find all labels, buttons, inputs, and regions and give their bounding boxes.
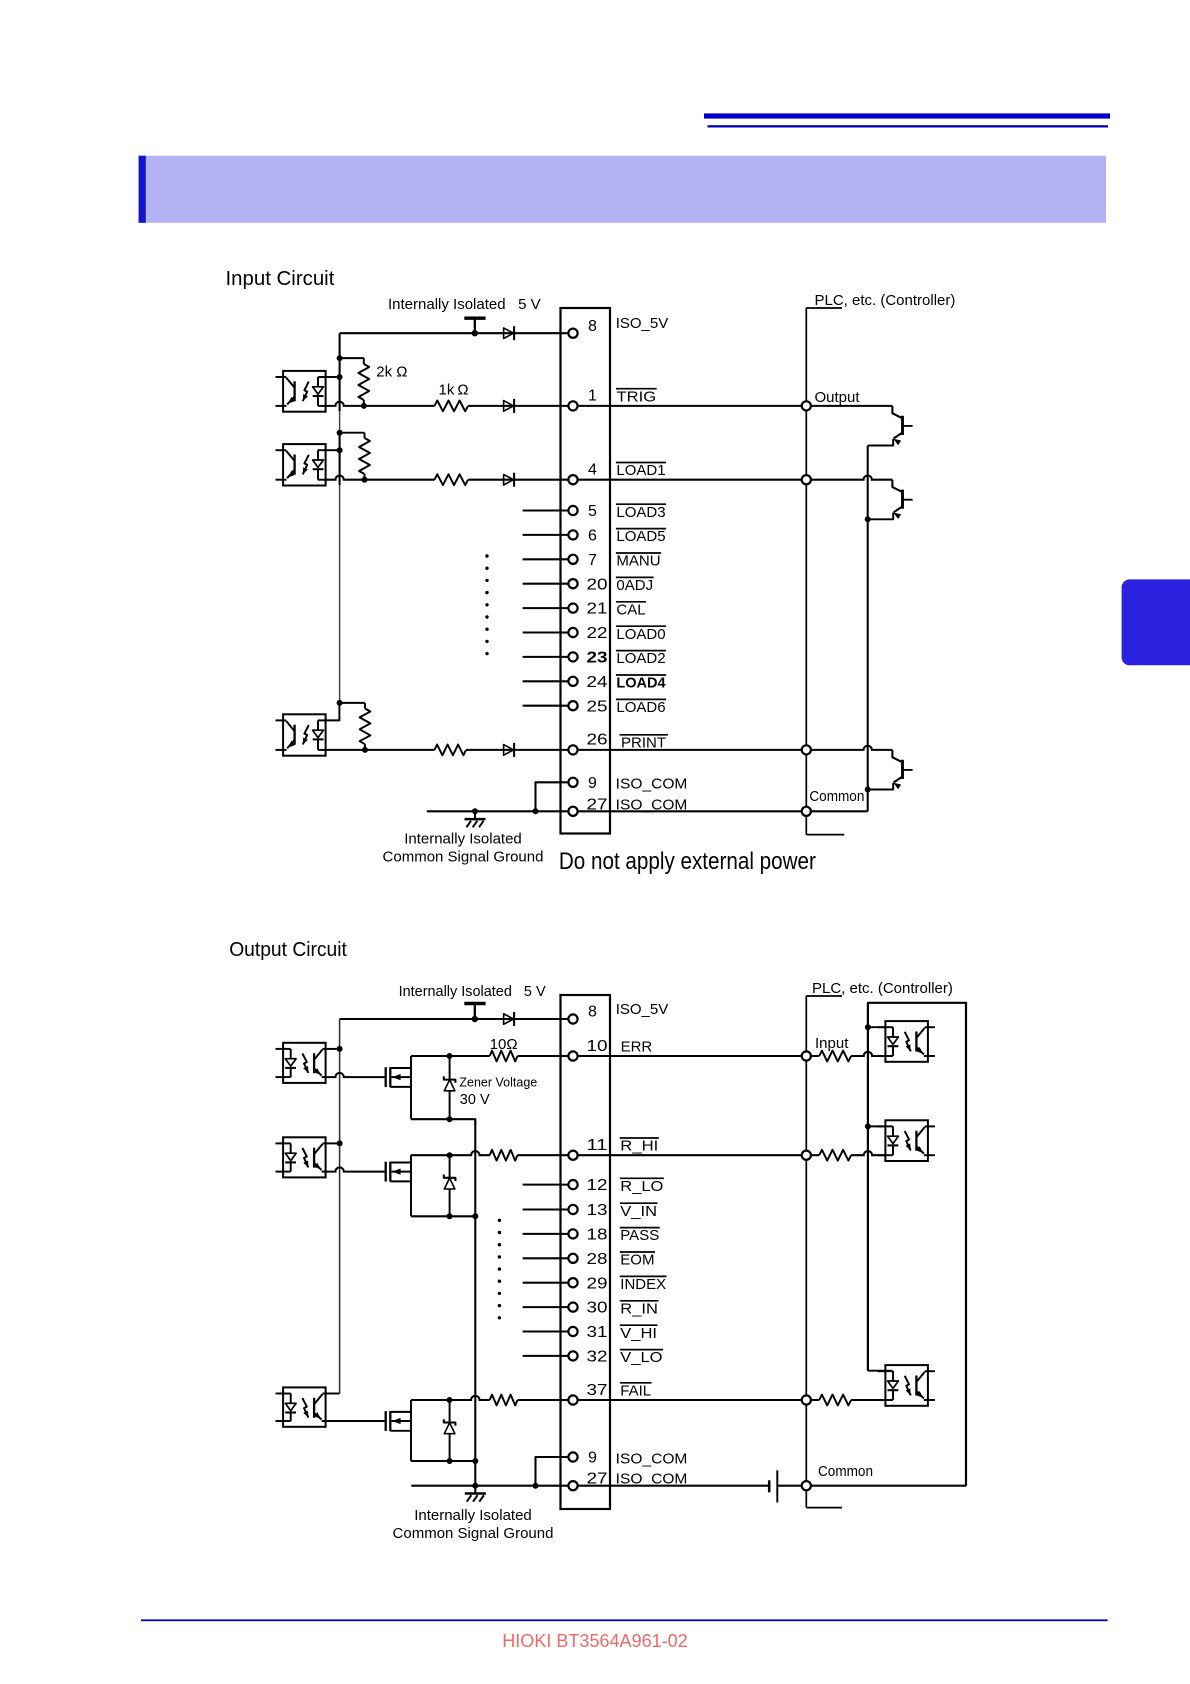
pin 29 terminal (output)	[568, 1278, 577, 1287]
wire: M3 source to ground rail	[411, 1460, 475, 1462]
pin 5 terminal (input)	[568, 506, 577, 515]
node: R3 bottom on PRINT line	[362, 747, 368, 753]
svg-text:R_IN: R_IN	[620, 1300, 658, 1317]
transistor M2 MOSFET (R_HI)	[385, 1162, 387, 1182]
chapter title bar left dark-blue strip	[139, 156, 146, 223]
resistor R6 1k-ohm (PRINT series)	[435, 748, 467, 753]
wire: M1 source to ground rail	[411, 1119, 475, 1125]
svg-text:ISO_COM: ISO_COM	[616, 1450, 688, 1467]
wire: left vertical +5V rail (output)	[339, 1019, 341, 1394]
pin 24 terminal (input)	[568, 677, 577, 686]
wire: R_HI line through R8 to pin 11 with hop	[450, 1151, 569, 1155]
node: rail to U1 collector junction	[337, 374, 343, 380]
optocoupler U7 (PLC ERR)	[885, 1021, 928, 1062]
wire: ERR line resistor to U7 with hop	[806, 1052, 885, 1056]
wire: stub for pin 31 (output)	[523, 1330, 569, 1332]
pin 23 terminal (input)	[568, 652, 577, 661]
svg-text:12: 12	[587, 1177, 608, 1194]
resistor R8 (R_HI)	[490, 1153, 518, 1158]
svg-text:Zener Voltage: Zener Voltage	[459, 1075, 537, 1089]
wire: ISO_5V feed from left rail to pin 8 (input)	[340, 332, 569, 334]
terminal: PLC Common (input)	[802, 807, 811, 816]
svg-text:7: 7	[588, 552, 597, 569]
svg-text:TRIG: TRIG	[617, 388, 657, 405]
terminal: PLC Input R_HI	[802, 1151, 811, 1160]
pin 22 terminal (input)	[568, 628, 577, 637]
wire: U8 transistor stubs (PLC)	[928, 1125, 935, 1127]
svg-text:1k Ω: 1k Ω	[439, 382, 469, 399]
transistor M1 MOSFET (ERR)	[385, 1067, 387, 1087]
svg-text:PLC, etc. (Controller): PLC, etc. (Controller)	[815, 292, 956, 309]
resistor R5 1k-ohm (LOAD1 series)	[435, 477, 469, 482]
resistor R4 1k-ohm (TRIG series)	[435, 404, 469, 409]
pin 9 terminal ISO_COM (input)	[568, 778, 577, 787]
svg-text:CAL: CAL	[616, 601, 645, 618]
svg-text:10: 10	[587, 1038, 608, 1055]
svg-text:Input Circuit: Input Circuit	[226, 268, 335, 290]
footer blue rule	[141, 1619, 1108, 1621]
svg-text:9: 9	[588, 1450, 597, 1467]
svg-text:V_IN: V_IN	[620, 1203, 657, 1220]
svg-text:Do not apply external power: Do not apply external power	[559, 848, 816, 875]
wire: LOAD1 line from U2 through R5 and D3 to pin 4	[326, 476, 569, 480]
svg-text:LOAD1: LOAD1	[616, 462, 665, 479]
diode D5 on ISO_5V line (output)	[504, 1014, 514, 1025]
svg-text:31: 31	[587, 1324, 608, 1341]
wire: PRINT line from U3 through R6 and D4 to pin 26	[326, 749, 569, 751]
svg-text:PASS: PASS	[620, 1227, 659, 1244]
svg-text:29: 29	[587, 1275, 608, 1292]
diode D4 (PRINT series)	[504, 745, 514, 756]
svg-text:MANU: MANU	[616, 553, 660, 570]
ellipsis dots for repeated output lines	[498, 1219, 501, 1222]
right edge chapter tab (blue)	[1122, 579, 1190, 665]
wire: ISO_5V feed to pin 8 (output)	[340, 1018, 569, 1020]
node: R2 bottom on LOAD1 line	[362, 477, 368, 483]
wire: stub for pin 20 (input)	[523, 583, 569, 585]
power tap: internally isolated 5V supply (input)	[464, 316, 485, 319]
page header thick blue rule	[704, 113, 1110, 118]
svg-text:LOAD4: LOAD4	[616, 675, 666, 692]
svg-text:20: 20	[587, 576, 608, 593]
zener diode ZD3 (FAIL)	[449, 1400, 451, 1461]
terminal: PLC Input ERR	[802, 1051, 811, 1060]
svg-text:Internally Isolated: Internally Isolated	[414, 1507, 532, 1524]
wire: U6 emitter to M3 gate	[326, 1420, 386, 1422]
wire: M3 drain to FAIL line	[411, 1399, 450, 1401]
diode D1 on ISO_5V line (input)	[504, 328, 514, 339]
resistor R3 2k-ohm pull-up (input PRINT)	[340, 702, 365, 704]
wire: M1 drain to ERR line	[411, 1055, 450, 1057]
svg-text:LOAD5: LOAD5	[616, 528, 665, 545]
terminal: PLC Output TRIG	[802, 401, 811, 410]
svg-text:2k Ω: 2k Ω	[376, 363, 407, 380]
svg-text:LOAD6: LOAD6	[616, 699, 665, 716]
node: R1 bottom on TRIG line	[361, 403, 367, 409]
svg-text:V_LO: V_LO	[620, 1349, 662, 1366]
wire: stub for pin 13 (output)	[523, 1208, 569, 1210]
pin 10 terminal ERR (output)	[568, 1051, 577, 1060]
wire: LOAD1 line to PLC output terminal	[578, 479, 807, 481]
battery/source in PLC common (output)	[768, 1480, 771, 1492]
wire: stub for pin 32 (output)	[523, 1355, 569, 1357]
wire: stub for pin 29 (output)	[523, 1282, 569, 1284]
wire: FAIL line resistor to U9	[806, 1399, 885, 1401]
svg-text:21: 21	[587, 601, 608, 618]
node: rail to U2 collector junction	[337, 447, 343, 453]
wire: stub for pin 30 (output)	[523, 1306, 569, 1308]
svg-text:EOM: EOM	[620, 1252, 654, 1269]
svg-text:37: 37	[587, 1382, 608, 1399]
pin 11 terminal R_HI (output)	[568, 1151, 577, 1160]
optocoupler U1 (TRIG input)	[283, 371, 326, 412]
pin 26 terminal PRINT (input)	[568, 745, 577, 754]
svg-text:30: 30	[587, 1300, 608, 1317]
pin 4 terminal LOAD1 (input)	[568, 475, 577, 484]
terminal: PLC Output PRINT	[802, 745, 811, 754]
resistor R12 (PLC FAIL input)	[819, 1398, 851, 1403]
svg-text:0ADJ: 0ADJ	[616, 577, 653, 594]
wire: ISO_COM line to PLC common terminal	[578, 810, 807, 812]
svg-text:INDEX: INDEX	[620, 1276, 666, 1293]
wire: U5 emitter to M2 gate with hop	[326, 1167, 386, 1171]
wire: TRIG line to PLC output terminal	[578, 405, 807, 407]
pin 18 terminal (output)	[568, 1229, 577, 1238]
wire: PLC terminal rail vertical (input)	[805, 308, 807, 835]
wire: rail corner into U6 anode	[326, 1393, 340, 1395]
svg-text:9: 9	[588, 775, 597, 792]
svg-text:Input: Input	[815, 1035, 849, 1052]
optocoupler U9 (PLC FAIL)	[885, 1365, 928, 1406]
terminal: PLC Output LOAD1	[802, 475, 811, 484]
pin 27 terminal ISO_COM (input)	[568, 807, 577, 816]
wire: stub for pin 22 (input)	[523, 631, 569, 633]
svg-text:13: 13	[587, 1202, 608, 1219]
wire: stub for pin 6 (input)	[523, 534, 569, 536]
diode D3 (LOAD1 series)	[504, 474, 514, 485]
wire: pin 9 riser from common line (output)	[533, 1483, 539, 1489]
wire: Q1 collector feed	[806, 405, 892, 407]
wire: stub for pin 28 (output)	[523, 1257, 569, 1259]
resistor R1 2k-ohm pull-up (input TRIG)	[340, 357, 364, 359]
transistor Q3 (PLC output, PRINT)	[892, 750, 902, 762]
node: rail to R3 junction	[337, 700, 343, 706]
wire: stub for pin 12 (output)	[523, 1184, 569, 1186]
svg-text:ISO_COM: ISO_COM	[616, 776, 688, 793]
svg-text:11: 11	[587, 1137, 608, 1154]
wire: stub for pin 5 (input)	[523, 509, 569, 511]
svg-text:LOAD3: LOAD3	[616, 504, 665, 521]
wire: left vertical +5V rail (input)	[339, 333, 341, 411]
wire: ERR line to PLC input terminal	[578, 1055, 807, 1057]
optocoupler U8 (PLC R_HI)	[885, 1120, 928, 1161]
node: rail to R1 junction	[337, 355, 343, 361]
pin 7 terminal (input)	[568, 555, 577, 564]
svg-text:R_HI: R_HI	[620, 1138, 658, 1155]
pin 28 terminal (output)	[568, 1254, 577, 1263]
wire: frame jog into U9 (output)	[868, 1370, 892, 1372]
svg-text:PRINT: PRINT	[621, 734, 666, 751]
pin 25 terminal (input)	[568, 701, 577, 710]
wire: stub for pin 18 (output)	[523, 1233, 569, 1235]
pin 12 terminal (output)	[568, 1180, 577, 1189]
zener diode ZD1 (30V clamp, ERR)	[449, 1056, 451, 1119]
node: U7 anode junction on frame	[865, 1024, 871, 1030]
wire: U9 transistor stubs (PLC)	[928, 1370, 935, 1372]
svg-text:LOAD2: LOAD2	[616, 650, 665, 667]
node: M2 source junction on ground rail	[472, 1213, 478, 1219]
pin 27 terminal ISO_COM (output)	[568, 1481, 577, 1490]
wire: M2 source to ground rail	[411, 1215, 475, 1217]
svg-text:V_HI: V_HI	[620, 1325, 657, 1342]
svg-text:Common: Common	[809, 788, 864, 805]
wire: U3 anode riser to rail node	[326, 705, 340, 720]
terminal: PLC Common (output)	[802, 1481, 811, 1490]
svg-text:ERR: ERR	[621, 1038, 653, 1055]
resistor R10 (PLC ERR input)	[819, 1054, 851, 1059]
svg-text:Output Circuit: Output Circuit	[229, 939, 347, 961]
svg-text:28: 28	[587, 1251, 608, 1268]
node: U8 anode junction on frame	[865, 1123, 871, 1129]
wire: TRIG line from U1 through R4 and D2 to pin 1	[326, 402, 569, 406]
wire: ERR line through R7 to pin 10	[450, 1055, 569, 1057]
optocoupler U5 (R_HI driver)	[283, 1137, 326, 1177]
node: Q2 emitter junction	[865, 516, 871, 522]
optocoupler U6 (FAIL driver)	[283, 1387, 326, 1426]
PLC internal frame box (output)	[868, 1003, 966, 1486]
svg-text:HIOKI BT3564A961-02: HIOKI BT3564A961-02	[502, 1630, 688, 1651]
svg-text:24: 24	[587, 674, 608, 691]
diode D2 (TRIG series)	[504, 401, 514, 412]
wire: FAIL line to PLC input terminal	[578, 1399, 807, 1401]
svg-text:LOAD0: LOAD0	[616, 626, 665, 643]
wire: FAIL line through R9 to pin 37 with hop	[450, 1396, 569, 1400]
optocoupler U4 (ERR driver)	[283, 1043, 326, 1083]
transistor Q1 (PLC output, TRIG)	[892, 406, 902, 418]
wire: R_HI line to PLC input terminal	[578, 1154, 807, 1156]
transistor M3 MOSFET (FAIL)	[385, 1411, 387, 1431]
resistor R2 2k-ohm pull-up (input LOAD1)	[340, 432, 365, 434]
pin 20 terminal (input)	[568, 579, 577, 588]
resistor R11 (PLC R_HI input)	[819, 1153, 851, 1158]
ellipsis dots for repeated input lines	[485, 554, 488, 557]
node: M3 source junction on ground rail	[472, 1458, 478, 1464]
connector J1 body (input)	[561, 308, 611, 834]
svg-text:5: 5	[588, 503, 597, 520]
svg-text:6: 6	[588, 528, 597, 545]
svg-text:32: 32	[587, 1349, 608, 1366]
svg-text:Internally Isolated: Internally Isolated	[404, 831, 522, 848]
pin 6 terminal (input)	[568, 530, 577, 539]
transistor Q2 (PLC output, LOAD1)	[892, 480, 902, 492]
svg-text:8: 8	[588, 318, 597, 335]
wire: M2 drain to R_HI line	[411, 1154, 450, 1156]
svg-text:30 V: 30 V	[460, 1092, 490, 1108]
resistor R9 (FAIL)	[490, 1398, 518, 1403]
wire: PLC terminal rail vertical (output)	[805, 996, 807, 1508]
optocoupler U2 (LOAD1 input)	[283, 444, 326, 485]
ground: internally isolated common signal ground (output)	[472, 1483, 478, 1489]
svg-text:4: 4	[588, 462, 597, 479]
svg-text:22: 22	[587, 625, 608, 642]
wire: pin 9 riser from common line (input)	[533, 808, 539, 814]
resistor R7 10-ohm (ERR)	[490, 1054, 518, 1059]
wire: stub for pin 21 (input)	[523, 607, 569, 609]
chapter title bar (lavender)	[139, 156, 1106, 223]
pin 1 terminal TRIG (input)	[568, 401, 577, 410]
svg-text:1: 1	[588, 388, 597, 405]
terminal: PLC Input FAIL	[802, 1395, 811, 1404]
svg-text:26: 26	[587, 732, 608, 749]
wire: Q3 collector feed with hop	[806, 746, 892, 750]
svg-text:ISO_5V: ISO_5V	[616, 315, 669, 332]
wire: output ground rail vertical	[474, 1119, 476, 1486]
svg-text:8: 8	[588, 1004, 597, 1021]
svg-text:25: 25	[587, 698, 608, 715]
ground: internally isolated common signal ground (input)	[472, 808, 478, 814]
wire: U7 transistor stubs (PLC)	[928, 1026, 935, 1028]
pin 8 terminal ISO_5V (output)	[568, 1014, 577, 1023]
pin 8 terminal ISO_5V (input)	[568, 329, 577, 338]
zener diode ZD2 (R_HI)	[449, 1155, 451, 1216]
wire: stub for pin 25 (input)	[523, 705, 569, 707]
svg-text:23: 23	[587, 650, 608, 667]
pin 13 terminal (output)	[568, 1205, 577, 1214]
wire: stub for pin 23 (input)	[523, 656, 569, 658]
wire: ISO_COM line to battery (output)	[578, 1485, 770, 1487]
wire: PRINT line to PLC output terminal	[578, 749, 807, 751]
optocoupler U3 (PRINT input)	[283, 714, 326, 755]
svg-text:ISO_5V: ISO_5V	[616, 1001, 669, 1018]
pin 37 terminal FAIL (output)	[568, 1395, 577, 1404]
power tap: internally isolated 5V supply (output)	[464, 1002, 485, 1005]
svg-text:Internally Isolated 5 V: Internally Isolated 5 V	[388, 296, 541, 313]
wire: ISO_COM common line (output)	[411, 1485, 568, 1487]
svg-text:Common Signal Ground: Common Signal Ground	[393, 1525, 554, 1542]
node: Q3 emitter junction	[865, 787, 871, 793]
node: rail to U4 anode junction	[337, 1046, 343, 1052]
svg-text:R_LO: R_LO	[620, 1178, 663, 1195]
node: rail to U5 anode junction	[337, 1140, 343, 1146]
connector J2 body (output)	[561, 995, 611, 1509]
pin 30 terminal (output)	[568, 1303, 577, 1312]
svg-text:FAIL: FAIL	[620, 1382, 651, 1399]
svg-text:Common Signal Ground: Common Signal Ground	[383, 849, 544, 866]
svg-text:Output: Output	[815, 389, 861, 406]
svg-text:Internally Isolated 5 V: Internally Isolated 5 V	[399, 983, 546, 1000]
wire: stub for pin 7 (input)	[523, 558, 569, 560]
wire: PLC emitter common rail (input)	[867, 446, 869, 812]
wire: R_HI line resistor to U8 with hop	[806, 1151, 885, 1155]
page header thin blue rule	[708, 125, 1109, 127]
svg-text:10Ω: 10Ω	[490, 1036, 518, 1053]
node: rail to R2 junction	[337, 430, 343, 436]
wire: PLC common bottom line (output)	[811, 1485, 966, 1487]
svg-text:Common: Common	[818, 1463, 873, 1480]
pin 21 terminal (input)	[568, 604, 577, 613]
pin 32 terminal (output)	[568, 1351, 577, 1360]
wire: ISO_COM common line (input)	[427, 810, 569, 812]
pin 31 terminal (output)	[568, 1327, 577, 1336]
svg-text:PLC, etc. (Controller): PLC, etc. (Controller)	[812, 980, 953, 997]
pin 9 terminal ISO_COM (output)	[568, 1452, 577, 1461]
svg-text:18: 18	[587, 1227, 608, 1244]
wire: U4 emitter to M1 gate with hop	[326, 1073, 386, 1077]
wire: stub for pin 24 (input)	[523, 680, 569, 682]
wire: Q2 collector feed with hop	[806, 476, 892, 480]
